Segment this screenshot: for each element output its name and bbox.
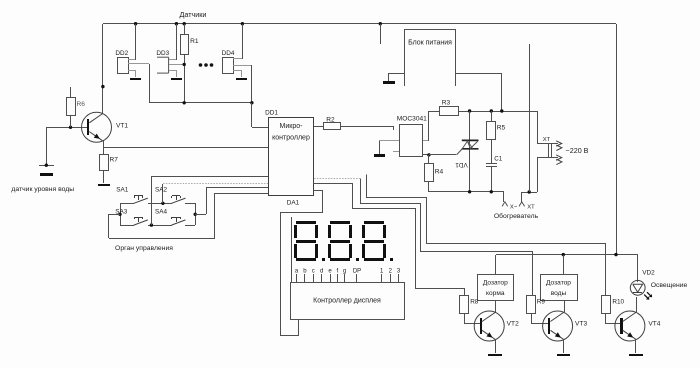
svg-text:VD2: VD2: [642, 270, 655, 277]
svg-text:R4: R4: [435, 169, 444, 176]
svg-text:DP: DP: [353, 269, 361, 275]
svg-text:X~: X~: [510, 205, 518, 211]
svg-text:DD3: DD3: [156, 50, 169, 57]
svg-text:R8: R8: [470, 299, 479, 306]
svg-text:Дозатор: Дозатор: [483, 280, 508, 287]
svg-text:R1: R1: [190, 38, 199, 45]
svg-text:DA1: DA1: [287, 200, 300, 207]
svg-text:воды: воды: [551, 290, 567, 297]
svg-text:Контроллер дисплея: Контроллер дисплея: [313, 297, 381, 304]
svg-text:DD1: DD1: [265, 110, 278, 117]
svg-text:R3: R3: [442, 100, 451, 107]
svg-text:Микро-: Микро-: [280, 123, 304, 130]
svg-text:XT: XT: [527, 205, 535, 211]
svg-text:Блок питания: Блок питания: [408, 40, 452, 47]
svg-text:g: g: [343, 269, 346, 275]
svg-text:VT3: VT3: [575, 321, 587, 328]
svg-text:R2: R2: [326, 116, 335, 123]
svg-text:SA1: SA1: [116, 187, 129, 194]
svg-text:VD1: VD1: [455, 161, 468, 168]
svg-text:c: c: [312, 269, 315, 275]
svg-text:SA3: SA3: [115, 208, 128, 215]
svg-text:Датчики: Датчики: [180, 10, 207, 19]
svg-text:SA2: SA2: [155, 187, 168, 194]
svg-text:Орган управления: Орган управления: [115, 245, 173, 252]
svg-text:XT: XT: [543, 137, 551, 143]
svg-text:R6: R6: [77, 101, 86, 108]
svg-text:VT1: VT1: [116, 123, 128, 130]
svg-text:MOC3041: MOC3041: [397, 116, 427, 123]
svg-text:DD4: DD4: [222, 50, 235, 57]
svg-text:R9: R9: [537, 299, 546, 306]
svg-text:датчик уровня воды: датчик уровня воды: [11, 186, 74, 193]
svg-text:VT4: VT4: [648, 321, 660, 328]
svg-text:DD2: DD2: [115, 50, 128, 57]
svg-text:контроллер: контроллер: [272, 134, 310, 141]
svg-text:корма: корма: [486, 290, 505, 297]
svg-text:d: d: [320, 269, 323, 275]
svg-text:Освещение: Освещение: [651, 282, 688, 289]
svg-text:R10: R10: [612, 299, 624, 306]
svg-text:~220 В: ~220 В: [566, 146, 589, 155]
svg-text:C1: C1: [494, 156, 502, 163]
svg-text:Дозатор: Дозатор: [546, 280, 571, 287]
svg-text:VT2: VT2: [507, 321, 519, 328]
svg-text:Обогреватель: Обогреватель: [494, 212, 539, 220]
svg-text:R7: R7: [110, 157, 119, 164]
svg-text:SA4: SA4: [155, 208, 168, 215]
svg-text:R5: R5: [497, 125, 506, 132]
